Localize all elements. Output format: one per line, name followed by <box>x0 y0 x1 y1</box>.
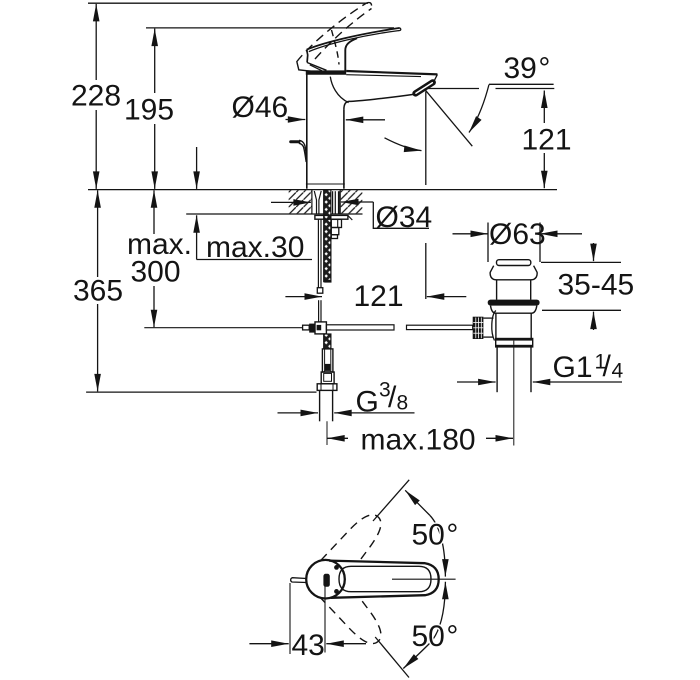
svg-text:8: 8 <box>397 392 409 415</box>
braided hose upper <box>324 190 331 282</box>
svg-text:50°: 50° <box>412 519 459 552</box>
39 deg arc <box>469 85 489 133</box>
handle tip <box>398 28 401 31</box>
clevis dark block <box>309 324 315 333</box>
horizontal linkage rod left part <box>326 325 394 330</box>
Ø63 extension lines <box>487 223 489 263</box>
drain upper body <box>496 280 498 300</box>
handle inner line <box>309 31 399 52</box>
shank right tube <box>332 191 334 214</box>
pipe centerline <box>326 421 328 445</box>
dimension max180 arrows <box>327 437 348 439</box>
clevis body <box>315 322 326 334</box>
svg-text:228: 228 <box>71 80 121 113</box>
faucet handle top edge <box>307 28 400 50</box>
dimension G114 arrows <box>457 381 496 383</box>
svg-text:Ø46: Ø46 <box>232 91 289 124</box>
mounting washer <box>315 215 348 219</box>
drain flange <box>490 266 537 280</box>
collar nut <box>496 339 533 347</box>
svg-text:121: 121 <box>522 124 572 157</box>
extension line top (228 ref) <box>88 2 368 4</box>
svg-text:35-45: 35-45 <box>558 269 635 302</box>
svg-text:195: 195 <box>124 94 174 127</box>
svg-text:G1: G1 <box>553 351 593 384</box>
topview dashed handle lower <box>321 578 390 652</box>
spout axis vertical extension <box>425 92 427 186</box>
dimension 121 right shaft <box>543 91 545 124</box>
topview knob circle <box>306 560 345 599</box>
mounting nut steps <box>331 219 341 227</box>
spout top edge <box>346 71 437 74</box>
topview dashed handle upper <box>321 507 390 581</box>
body left edge <box>306 72 308 189</box>
shank funnel <box>314 191 316 214</box>
handle front face <box>307 50 308 63</box>
dimension 195 shaft <box>154 29 156 93</box>
aerator strips <box>416 82 433 93</box>
side boss <box>492 311 496 341</box>
svg-text:50°: 50° <box>412 620 459 653</box>
50deg lower arc <box>430 582 445 643</box>
counter hatch right <box>341 190 363 213</box>
50deg lower diagonal <box>375 637 409 678</box>
365 bottom ref line <box>86 391 316 393</box>
counter underside line <box>186 213 362 215</box>
topview indicator bar <box>323 574 329 587</box>
39 deg stream diagonal <box>424 89 472 146</box>
hose fitting <box>322 349 333 372</box>
threaded rod <box>317 220 319 288</box>
rod foot <box>317 288 323 294</box>
hose collar <box>321 372 334 384</box>
svg-text:4: 4 <box>612 360 624 383</box>
121 top extension line <box>428 88 480 90</box>
handle neck right edge <box>345 38 357 70</box>
drain lower body <box>495 313 497 338</box>
knurled knob <box>473 317 484 339</box>
dimension 43 arrows <box>249 643 288 645</box>
hose end cap <box>324 280 331 283</box>
dimension G38 arrows <box>278 412 319 414</box>
svg-text:G: G <box>356 386 379 419</box>
body inner design arc <box>330 77 348 103</box>
knob neck <box>483 317 493 319</box>
svg-text:max.180: max.180 <box>361 424 476 457</box>
supply pipe <box>319 390 321 421</box>
supply nut <box>317 384 337 391</box>
dimension 35-45 ext lines <box>541 261 621 263</box>
dimension 121 horizontal arrows <box>285 296 322 298</box>
dimension 228 shaft <box>95 4 97 80</box>
dimension Ø46 arrows <box>286 119 306 121</box>
svg-text:/: / <box>603 350 612 383</box>
dimension 35-45 arrows <box>593 243 595 261</box>
svg-text:121: 121 <box>354 280 404 313</box>
39 deg reference line <box>489 83 554 85</box>
dimension 43 ext lines <box>289 583 291 654</box>
topview handle outline <box>329 561 439 598</box>
counter hatch left <box>289 190 312 213</box>
50deg upper diagonal <box>373 480 409 521</box>
body taper below o-ring <box>491 306 537 314</box>
base line <box>306 183 345 185</box>
topview handle inner <box>339 566 431 591</box>
topview centerline <box>392 578 456 580</box>
dimension max300 shaft <box>153 190 155 234</box>
swivel arc arrow <box>385 138 422 151</box>
horizontal linkage rod right part <box>407 325 473 329</box>
dimension max30 upper arrow <box>196 147 198 189</box>
Ø34 leader <box>373 202 429 228</box>
drain cap <box>497 260 531 266</box>
max30 leader <box>196 215 198 259</box>
countertop line <box>88 189 557 191</box>
svg-text:Ø34: Ø34 <box>376 201 433 234</box>
dimension Ø34 arrows <box>271 201 292 203</box>
clevis small box <box>303 325 310 330</box>
svg-text:300: 300 <box>131 256 181 289</box>
topview dots <box>334 565 339 570</box>
hose below clevis <box>324 334 331 349</box>
pull rod knob <box>291 140 299 143</box>
spout underside <box>344 94 414 109</box>
tailpipe <box>496 347 498 392</box>
mounting hole edges <box>311 190 313 214</box>
svg-text:39°: 39° <box>504 52 551 85</box>
svg-text:365: 365 <box>73 275 123 308</box>
o-ring <box>488 300 540 306</box>
svg-text:43: 43 <box>292 629 325 662</box>
joint dark bar <box>306 70 346 74</box>
topview stub <box>291 578 307 583</box>
drain centerline <box>513 347 515 446</box>
handle rear wedge <box>297 62 311 71</box>
svg-text:Ø63: Ø63 <box>489 218 546 251</box>
faucet handle dashed raised position <box>297 3 367 62</box>
svg-text:max.30: max.30 <box>206 231 304 264</box>
extension line (195 ref) <box>146 27 394 29</box>
dimension Ø63 arrows <box>453 233 489 235</box>
spout tip face <box>430 74 437 83</box>
dimension 365 shaft <box>97 190 99 277</box>
50deg upper arc <box>405 490 430 515</box>
body right edge <box>343 109 345 188</box>
topview handle white fill <box>329 561 439 598</box>
pull rod horizontal line <box>144 327 302 329</box>
